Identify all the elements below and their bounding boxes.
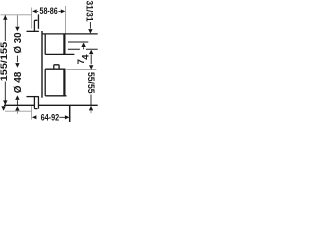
- svg-text:155/155: 155/155: [0, 42, 9, 82]
- svg-text:64-92: 64-92: [41, 113, 60, 123]
- svg-text:Ø 30: Ø 30: [13, 32, 24, 53]
- svg-text:58-86: 58-86: [40, 6, 58, 16]
- svg-text:4: 4: [81, 54, 92, 60]
- svg-text:55/55: 55/55: [86, 72, 97, 94]
- svg-text:Ø 48: Ø 48: [13, 71, 24, 93]
- svg-text:31/31: 31/31: [85, 1, 96, 22]
